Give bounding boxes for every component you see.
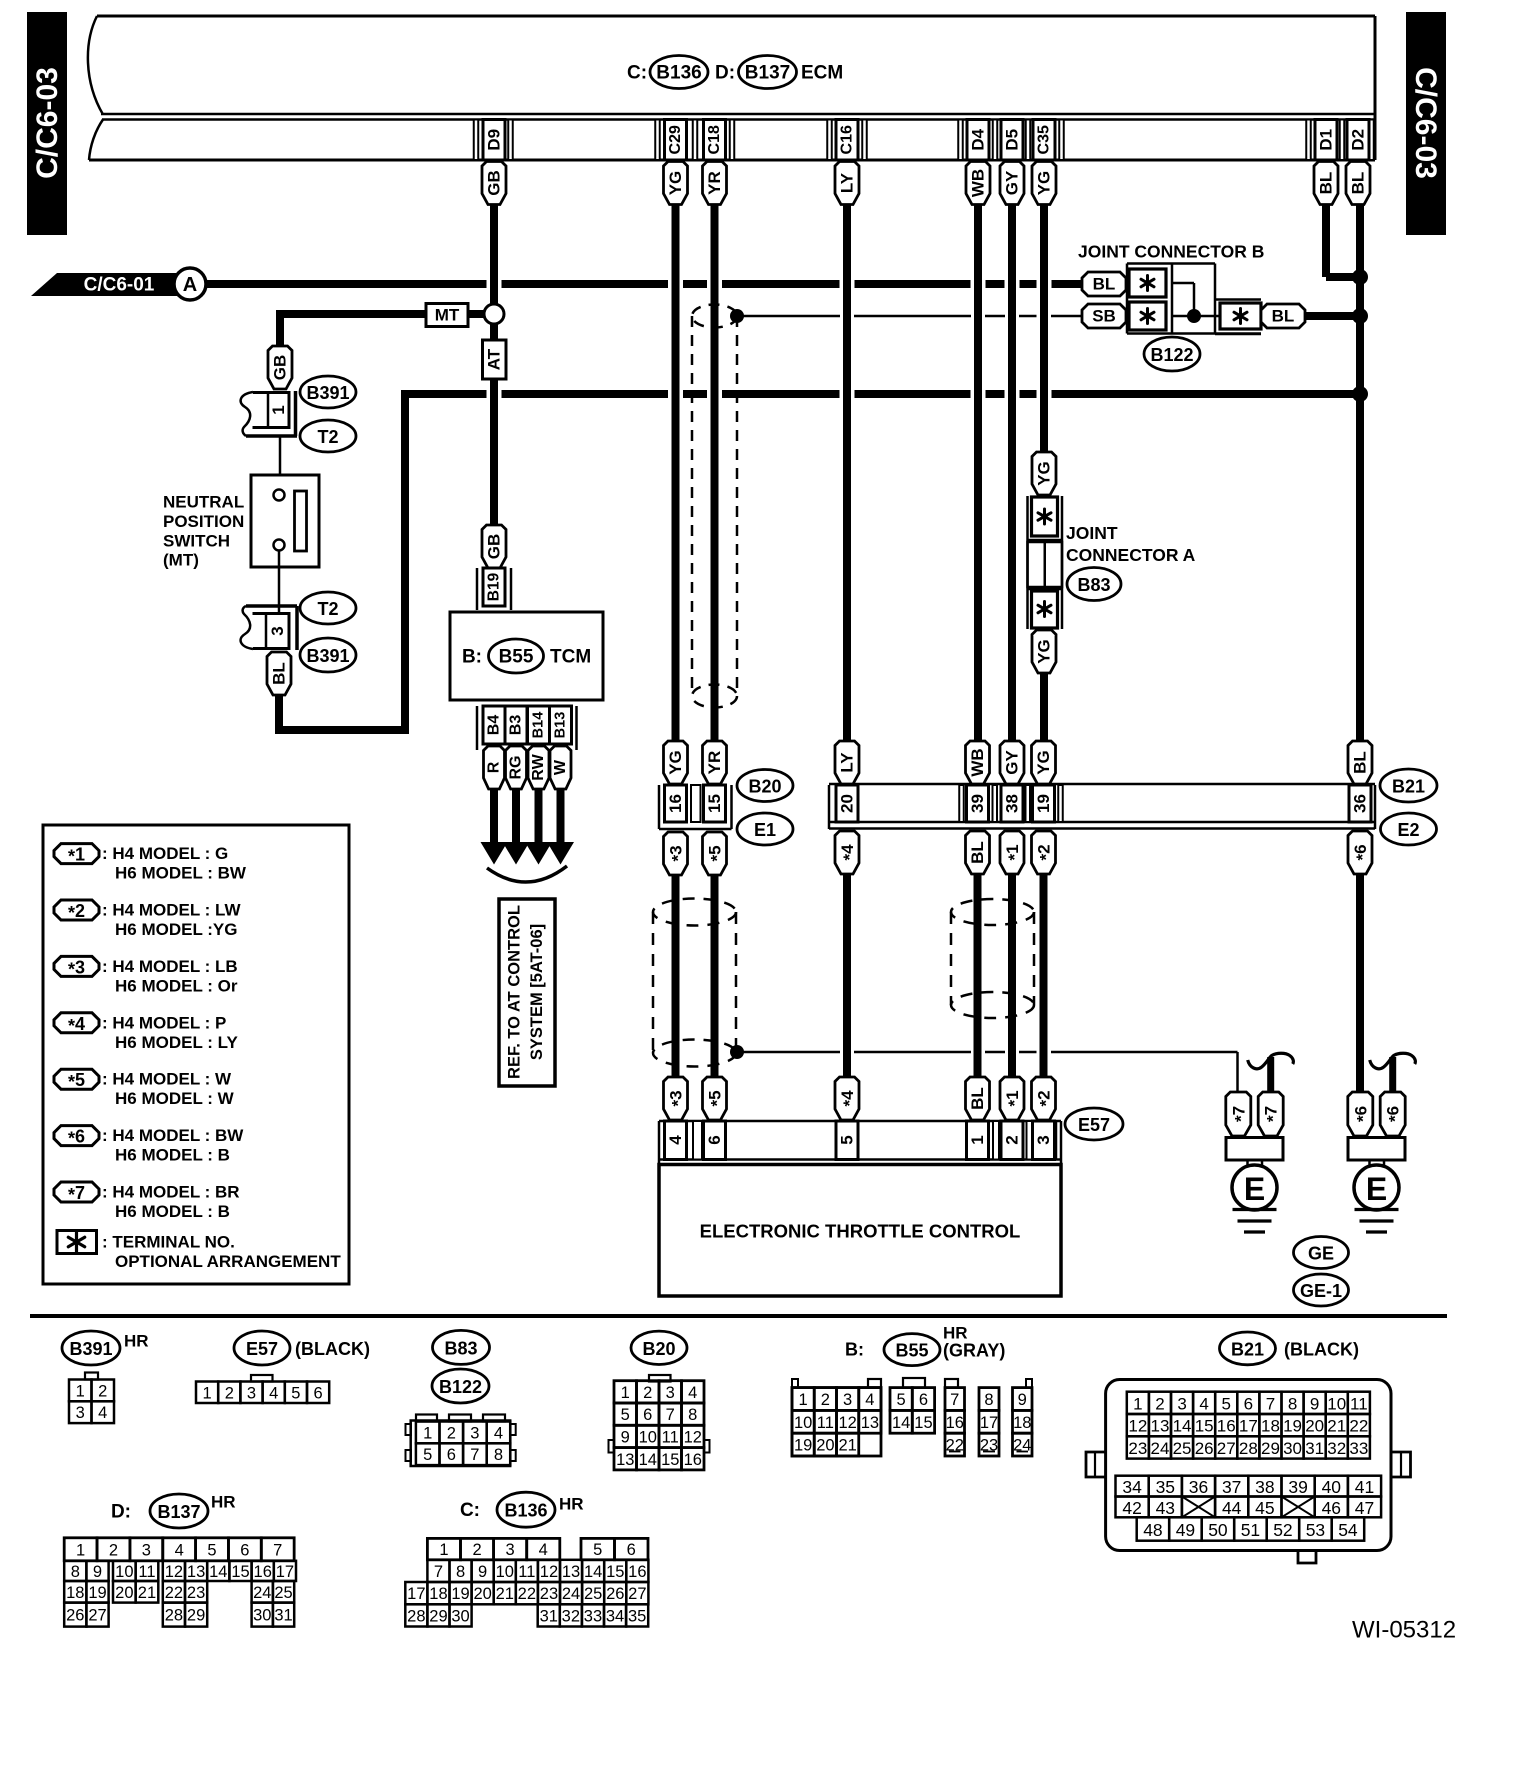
wire tag WB above E2 bbox=[966, 741, 990, 784]
svg-text:B137: B137 bbox=[157, 1502, 200, 1522]
svg-text:YG: YG bbox=[1035, 461, 1054, 486]
wire BL output to D2 node bbox=[1305, 312, 1356, 320]
svg-text:: H4 MODEL : W: : H4 MODEL : W bbox=[102, 1070, 232, 1089]
svg-text:D1: D1 bbox=[1317, 129, 1336, 151]
svg-text:39: 39 bbox=[968, 794, 987, 813]
svg-text:C:: C: bbox=[627, 63, 647, 84]
shield drain wire SB to joint connector B bbox=[737, 315, 1082, 318]
svg-text:7: 7 bbox=[273, 1541, 282, 1559]
svg-text:E57: E57 bbox=[246, 1339, 278, 1359]
svg-text:JOINT CONNECTOR B: JOINT CONNECTOR B bbox=[1078, 242, 1264, 262]
svg-text:21: 21 bbox=[838, 1437, 856, 1455]
svg-text:10: 10 bbox=[496, 1563, 514, 1581]
svg-text:POSITION: POSITION bbox=[163, 512, 244, 531]
svg-text:18: 18 bbox=[1261, 1417, 1280, 1436]
pinout B21 (BLACK) bbox=[1086, 1332, 1411, 1563]
svg-text:*3: *3 bbox=[68, 957, 85, 979]
svg-text:T2: T2 bbox=[317, 599, 338, 619]
wire BL to E57 pin 1 bbox=[974, 873, 982, 1078]
svg-text:12: 12 bbox=[540, 1563, 558, 1581]
wire BL from neutral position switch to D2 node bbox=[275, 389, 1360, 734]
svg-text:LY: LY bbox=[838, 172, 857, 193]
svg-text:29: 29 bbox=[429, 1607, 447, 1625]
connector E1/B20 (pins 16,15) bbox=[659, 785, 732, 829]
svg-text:B21: B21 bbox=[1392, 777, 1425, 797]
wire tag YG joint connector A top bbox=[1032, 452, 1056, 495]
svg-text:26: 26 bbox=[606, 1585, 624, 1603]
svg-text:53: 53 bbox=[1306, 1520, 1325, 1540]
svg-text:B4: B4 bbox=[486, 715, 503, 736]
wire tag BL at E57 bbox=[966, 1077, 990, 1120]
svg-text:14: 14 bbox=[209, 1563, 227, 1581]
svg-text:21: 21 bbox=[138, 1584, 156, 1602]
svg-text:34: 34 bbox=[606, 1607, 624, 1625]
svg-text:7: 7 bbox=[666, 1406, 675, 1424]
svg-text:A: A bbox=[183, 274, 197, 296]
svg-text:18: 18 bbox=[1013, 1414, 1031, 1432]
svg-text:33: 33 bbox=[584, 1607, 602, 1625]
page tab C/C6-03 right bbox=[1406, 12, 1446, 235]
connector MT label box bbox=[426, 304, 468, 327]
svg-text:BL: BL bbox=[968, 1087, 987, 1110]
svg-text:27: 27 bbox=[1217, 1439, 1236, 1458]
connector label E57 bbox=[1065, 1108, 1123, 1140]
svg-text:3: 3 bbox=[268, 626, 287, 635]
svg-text:4: 4 bbox=[1199, 1394, 1208, 1413]
wire tag *1 below E2 bbox=[1000, 831, 1024, 874]
svg-text:32: 32 bbox=[1327, 1439, 1346, 1458]
svg-text:*5: *5 bbox=[705, 845, 726, 861]
wire BL from A to joint connector B bbox=[206, 279, 1082, 289]
wire tag *2 at E57 bbox=[1032, 1077, 1056, 1120]
joint connector A body bbox=[1028, 496, 1063, 629]
svg-text:16: 16 bbox=[684, 1451, 702, 1469]
svg-text:29: 29 bbox=[187, 1607, 205, 1625]
svg-text:5: 5 bbox=[621, 1406, 630, 1424]
wire switch to connector 1 bbox=[279, 436, 282, 475]
svg-text:GY: GY bbox=[1003, 170, 1022, 195]
svg-text:MT: MT bbox=[435, 306, 460, 325]
svg-text:20: 20 bbox=[816, 1437, 834, 1455]
svg-text:18: 18 bbox=[66, 1584, 84, 1602]
svg-text:26: 26 bbox=[66, 1607, 84, 1625]
svg-text:: H4 MODEL : LW: : H4 MODEL : LW bbox=[102, 901, 241, 920]
svg-text:2: 2 bbox=[1003, 1135, 1022, 1144]
svg-text:1: 1 bbox=[76, 1541, 85, 1559]
connector E2/B21 (pins 20,39,38,19,36) bbox=[829, 784, 1375, 829]
svg-text:6: 6 bbox=[240, 1541, 249, 1559]
svg-text:4: 4 bbox=[539, 1541, 548, 1559]
connector label B391 bbox=[300, 376, 356, 408]
legend entry *6 bbox=[54, 1126, 244, 1165]
svg-text:GB: GB bbox=[485, 534, 504, 560]
wire tag GB at TCM B19 bbox=[482, 525, 506, 568]
svg-text:20: 20 bbox=[838, 794, 857, 813]
connector label B21 bbox=[1380, 769, 1437, 802]
svg-text:42: 42 bbox=[1122, 1498, 1141, 1518]
svg-text:30: 30 bbox=[253, 1607, 271, 1625]
svg-text:1: 1 bbox=[269, 405, 288, 414]
ground E (*7) bbox=[1226, 1053, 1294, 1232]
svg-text:31: 31 bbox=[540, 1607, 558, 1625]
pinout B391 (HR) bbox=[62, 1331, 149, 1423]
svg-text:2: 2 bbox=[472, 1541, 481, 1559]
ECM label C: B136 D: B137 ECM bbox=[627, 56, 843, 89]
wire tag YG above E2 bbox=[1032, 741, 1056, 784]
TCM pin B19 bbox=[477, 568, 511, 610]
svg-text:31: 31 bbox=[274, 1607, 292, 1625]
svg-text:1: 1 bbox=[439, 1541, 448, 1559]
svg-text:27: 27 bbox=[88, 1607, 106, 1625]
svg-text:H6 MODEL : B: H6 MODEL : B bbox=[115, 1202, 230, 1221]
svg-text:3: 3 bbox=[843, 1391, 852, 1409]
svg-text:9: 9 bbox=[93, 1563, 102, 1581]
svg-text:: TERMINAL NO.: : TERMINAL NO. bbox=[102, 1233, 235, 1252]
svg-text:50: 50 bbox=[1208, 1520, 1228, 1540]
svg-text:C16: C16 bbox=[839, 125, 856, 154]
wire tag YG at pin C35 bbox=[1032, 162, 1056, 205]
svg-text:24: 24 bbox=[1150, 1439, 1169, 1458]
svg-text:*2: *2 bbox=[1034, 844, 1055, 860]
svg-text:6: 6 bbox=[447, 1446, 456, 1464]
svg-text:20: 20 bbox=[1305, 1417, 1324, 1436]
svg-text:43: 43 bbox=[1156, 1498, 1175, 1518]
diagram number WI-05312 bbox=[1352, 1617, 1456, 1644]
svg-text:7: 7 bbox=[470, 1446, 479, 1464]
svg-text:18: 18 bbox=[429, 1585, 447, 1603]
svg-text:19: 19 bbox=[88, 1584, 106, 1602]
wire tag BL below connector 3 bbox=[267, 652, 291, 695]
svg-text:GE-1: GE-1 bbox=[1300, 1281, 1342, 1301]
pinout C: B136 (HR) bbox=[405, 1492, 648, 1626]
label NEUTRAL POSITION SWITCH (MT) bbox=[163, 493, 244, 570]
svg-text:4: 4 bbox=[666, 1135, 685, 1145]
svg-text:HR: HR bbox=[124, 1332, 149, 1351]
svg-text:*5: *5 bbox=[705, 1090, 726, 1106]
svg-text:B122: B122 bbox=[439, 1377, 482, 1397]
wires to AT control system with arrows bbox=[481, 788, 575, 865]
svg-text:B3: B3 bbox=[508, 715, 525, 736]
svg-text:2: 2 bbox=[225, 1384, 234, 1402]
wire *3 to E57 pin 4 bbox=[672, 874, 680, 1078]
svg-text:17: 17 bbox=[276, 1563, 294, 1581]
wire tag BL above E2 bbox=[1348, 741, 1372, 784]
svg-text:4: 4 bbox=[688, 1384, 697, 1402]
svg-text:HR: HR bbox=[559, 1495, 584, 1514]
svg-text:14: 14 bbox=[584, 1563, 602, 1581]
junction BL neutral switch wire bbox=[1352, 386, 1368, 402]
wire *6 to ground bbox=[1356, 873, 1364, 1093]
svg-text:24: 24 bbox=[253, 1584, 271, 1602]
wire tag *5 below E1 bbox=[703, 832, 727, 875]
svg-text:E2: E2 bbox=[1397, 820, 1419, 840]
svg-text:D5: D5 bbox=[1003, 129, 1022, 151]
connector label B83 bbox=[1067, 568, 1121, 601]
svg-text:10: 10 bbox=[1327, 1394, 1346, 1413]
svg-text:30: 30 bbox=[1283, 1439, 1302, 1458]
svg-text:4: 4 bbox=[494, 1424, 503, 1442]
connector label T2 (lower) bbox=[300, 592, 356, 624]
wire GB (D9) bbox=[490, 204, 498, 526]
svg-text:15: 15 bbox=[705, 794, 724, 813]
ground label GE-1 bbox=[1294, 1274, 1349, 1306]
svg-text:10: 10 bbox=[794, 1414, 812, 1432]
wire tag SB joint connector B input bbox=[1082, 304, 1126, 328]
ECM pin C16 bbox=[836, 120, 858, 161]
TCM unit box B55 bbox=[450, 612, 603, 700]
svg-text:YG: YG bbox=[1035, 171, 1054, 196]
svg-text:B83: B83 bbox=[444, 1338, 477, 1358]
wire tag BL below E2 bbox=[966, 831, 990, 874]
svg-text:11: 11 bbox=[518, 1563, 535, 1581]
ground label GE bbox=[1294, 1237, 1349, 1269]
svg-text:52: 52 bbox=[1273, 1520, 1292, 1540]
ECM pin D9 bbox=[483, 120, 505, 161]
svg-text:40: 40 bbox=[1322, 1477, 1342, 1497]
legend box bbox=[43, 825, 349, 1284]
svg-text:C35: C35 bbox=[1036, 125, 1053, 154]
svg-text:1: 1 bbox=[423, 1424, 432, 1442]
svg-text:B137: B137 bbox=[745, 63, 790, 84]
svg-text:B13: B13 bbox=[553, 712, 569, 739]
svg-text:ELECTRONIC THROTTLE CONTROL: ELECTRONIC THROTTLE CONTROL bbox=[700, 1221, 1021, 1242]
wire tag LY at pin C16 bbox=[835, 162, 859, 205]
svg-text:23: 23 bbox=[187, 1584, 205, 1602]
wire tag BL at pin D1 bbox=[1314, 162, 1338, 205]
svg-text:*6: *6 bbox=[1351, 844, 1372, 860]
svg-text:19: 19 bbox=[1034, 794, 1053, 813]
junction circle (MT/AT option) bbox=[484, 304, 504, 324]
svg-text:21: 21 bbox=[1327, 1417, 1346, 1436]
wire tag *6 below E2 bbox=[1348, 831, 1372, 874]
connector label T2 bbox=[300, 420, 356, 452]
wire YG (C35) upper bbox=[1040, 204, 1048, 453]
svg-text:48: 48 bbox=[1143, 1520, 1162, 1540]
svg-text:CONNECTOR A: CONNECTOR A bbox=[1066, 545, 1196, 565]
wire YG (C35) lower bbox=[1040, 672, 1048, 742]
legend entry *1 bbox=[54, 844, 247, 883]
svg-text:H6 MODEL : LY: H6 MODEL : LY bbox=[115, 1033, 238, 1052]
svg-text:R: R bbox=[486, 761, 503, 773]
svg-text:BL: BL bbox=[1317, 172, 1336, 195]
section divider bbox=[30, 1314, 1447, 1318]
svg-text:9: 9 bbox=[621, 1428, 630, 1446]
svg-text:14: 14 bbox=[892, 1414, 910, 1432]
wire BL (D1) bbox=[1326, 204, 1356, 277]
ECM pin D4 bbox=[967, 120, 989, 161]
svg-text:29: 29 bbox=[1261, 1439, 1280, 1458]
svg-text:6: 6 bbox=[314, 1384, 323, 1402]
svg-text:5: 5 bbox=[207, 1541, 216, 1559]
wire tag GY at pin D5 bbox=[1000, 162, 1024, 205]
svg-text:WI-05312: WI-05312 bbox=[1352, 1617, 1456, 1644]
svg-text:35: 35 bbox=[628, 1607, 646, 1625]
svg-text:9: 9 bbox=[478, 1563, 487, 1581]
arc under arrows bbox=[487, 866, 567, 882]
wire *2 to E57 pin 3 bbox=[1040, 873, 1048, 1078]
svg-text:3: 3 bbox=[76, 1404, 85, 1422]
svg-text:RG: RG bbox=[508, 756, 525, 780]
svg-text:T2: T2 bbox=[317, 427, 338, 447]
svg-text:: H4 MODEL : LB: : H4 MODEL : LB bbox=[102, 957, 238, 976]
pinout B20 bbox=[609, 1331, 710, 1470]
svg-text:3: 3 bbox=[506, 1541, 515, 1559]
svg-text:16: 16 bbox=[946, 1414, 964, 1432]
svg-text:6: 6 bbox=[627, 1541, 636, 1559]
svg-text:27: 27 bbox=[628, 1585, 646, 1603]
svg-text:6: 6 bbox=[705, 1135, 724, 1144]
svg-text:14: 14 bbox=[1173, 1417, 1192, 1436]
shield around WB/GY wires bbox=[951, 899, 1034, 1018]
svg-text:*6: *6 bbox=[1351, 1106, 1372, 1122]
svg-text:7: 7 bbox=[950, 1391, 959, 1409]
ECM pin D1 bbox=[1315, 120, 1337, 161]
svg-text:GE: GE bbox=[1308, 1244, 1334, 1264]
wire tag BL joint connector B input bbox=[1082, 272, 1126, 296]
svg-text:16: 16 bbox=[254, 1563, 272, 1581]
connector label B391 (lower) bbox=[300, 638, 356, 672]
svg-text:(BLACK): (BLACK) bbox=[295, 1339, 370, 1359]
wire YG (C29) bbox=[672, 204, 680, 742]
junction BL joint connector B output bbox=[1352, 308, 1368, 324]
svg-text:JOINT: JOINT bbox=[1066, 523, 1118, 543]
svg-text:22: 22 bbox=[518, 1585, 536, 1603]
svg-text:*4: *4 bbox=[68, 1014, 85, 1036]
wire tag *3 at E57 bbox=[664, 1077, 688, 1120]
svg-text:38: 38 bbox=[1255, 1477, 1274, 1497]
svg-text:35: 35 bbox=[1156, 1477, 1175, 1497]
wire tag *1 at E57 bbox=[1000, 1077, 1024, 1120]
svg-text:13: 13 bbox=[861, 1414, 879, 1432]
svg-text:C:: C: bbox=[460, 1500, 480, 1521]
svg-text:19: 19 bbox=[451, 1585, 469, 1603]
wire tag YR at E1 pin 15 bbox=[703, 741, 727, 784]
legend entry *3 bbox=[54, 956, 238, 995]
ECM pin C29 bbox=[665, 120, 687, 161]
svg-text:22: 22 bbox=[1349, 1417, 1368, 1436]
svg-text:GB: GB bbox=[485, 170, 504, 196]
svg-text:YR: YR bbox=[705, 171, 724, 195]
svg-text:5: 5 bbox=[593, 1541, 602, 1559]
svg-text:H6 MODEL :YG: H6 MODEL :YG bbox=[115, 920, 237, 939]
svg-text:D:: D: bbox=[715, 63, 735, 84]
svg-text:*4: *4 bbox=[838, 844, 859, 861]
svg-text:33: 33 bbox=[1349, 1439, 1368, 1458]
shield drain wire to ground *7 bbox=[737, 1052, 1238, 1092]
svg-text:BL: BL bbox=[1349, 172, 1368, 195]
svg-text:15: 15 bbox=[1195, 1417, 1214, 1436]
svg-text:15: 15 bbox=[661, 1451, 679, 1469]
wire tags R RG RW W bbox=[484, 746, 572, 789]
wire YR (C18) bbox=[711, 204, 719, 742]
wire *1 to E57 pin 2 bbox=[1008, 873, 1016, 1078]
svg-text:5: 5 bbox=[423, 1446, 432, 1464]
svg-text:*1: *1 bbox=[1003, 844, 1024, 860]
svg-text:26: 26 bbox=[1195, 1439, 1214, 1458]
wire tag YG at E1 pin 16 bbox=[664, 741, 688, 784]
svg-text:51: 51 bbox=[1241, 1520, 1260, 1540]
wire tag BL at pin D2 bbox=[1346, 162, 1370, 205]
svg-text:(MT): (MT) bbox=[163, 551, 199, 570]
svg-text:D4: D4 bbox=[969, 128, 988, 150]
svg-text:GY: GY bbox=[1003, 750, 1022, 775]
svg-text:W: W bbox=[552, 759, 569, 775]
label JOINT CONNECTOR A bbox=[1066, 523, 1196, 565]
svg-text:9: 9 bbox=[1310, 1394, 1319, 1413]
svg-text:12: 12 bbox=[684, 1428, 702, 1446]
svg-text:17: 17 bbox=[407, 1585, 425, 1603]
ECM unit box bbox=[88, 16, 1375, 160]
svg-text:B122: B122 bbox=[1150, 345, 1193, 365]
svg-text:16: 16 bbox=[666, 794, 685, 813]
svg-text:YG: YG bbox=[1034, 750, 1053, 775]
neutral position switch (MT) bbox=[251, 475, 319, 567]
svg-text:: H4 MODEL : G: : H4 MODEL : G bbox=[102, 844, 228, 863]
svg-text:54: 54 bbox=[1338, 1520, 1358, 1540]
wire MT branch bbox=[276, 310, 484, 346]
wire tag *3 below E1 bbox=[664, 832, 688, 875]
connector label E1 bbox=[737, 813, 793, 845]
svg-text:1: 1 bbox=[799, 1391, 808, 1409]
svg-text:5: 5 bbox=[838, 1135, 857, 1144]
svg-text:H6 MODEL : B: H6 MODEL : B bbox=[115, 1146, 230, 1165]
svg-text:: H4 MODEL : P: : H4 MODEL : P bbox=[102, 1013, 226, 1032]
svg-text:25: 25 bbox=[1173, 1439, 1192, 1458]
legend entry *7 bbox=[54, 1182, 240, 1221]
svg-text:3: 3 bbox=[1034, 1135, 1053, 1144]
svg-text:*5: *5 bbox=[68, 1070, 85, 1092]
svg-text:*3: *3 bbox=[666, 1090, 687, 1106]
svg-text:*1: *1 bbox=[68, 845, 85, 867]
svg-text:*7: *7 bbox=[1261, 1106, 1282, 1122]
svg-text:WB: WB bbox=[969, 169, 988, 197]
svg-text:8: 8 bbox=[494, 1446, 503, 1464]
svg-text:YG: YG bbox=[666, 171, 685, 196]
svg-text:HR: HR bbox=[211, 1493, 236, 1512]
svg-text:TCM: TCM bbox=[550, 647, 591, 668]
pinout E57 (BLACK) bbox=[196, 1331, 370, 1403]
electronic throttle control box bbox=[659, 1165, 1061, 1297]
svg-text:1: 1 bbox=[203, 1384, 212, 1402]
wire *4 to E57 pin 5 bbox=[843, 873, 851, 1078]
svg-text:WB: WB bbox=[968, 748, 987, 776]
svg-text:39: 39 bbox=[1288, 1477, 1307, 1497]
connector label B122 bbox=[1144, 337, 1200, 371]
svg-text:1: 1 bbox=[1133, 1394, 1142, 1413]
svg-text:36: 36 bbox=[1351, 794, 1370, 813]
svg-text:YG: YG bbox=[1035, 639, 1054, 664]
svg-text:SYSTEM [5AT-06]: SYSTEM [5AT-06] bbox=[528, 924, 546, 1060]
wire tag *5 at E57 bbox=[703, 1077, 727, 1120]
svg-text:5: 5 bbox=[897, 1391, 906, 1409]
svg-text:E: E bbox=[1244, 1171, 1265, 1207]
svg-text:C29: C29 bbox=[667, 125, 684, 154]
svg-text:BL: BL bbox=[1272, 307, 1295, 326]
svg-text:C/C6-01: C/C6-01 bbox=[84, 275, 155, 296]
svg-text:3: 3 bbox=[666, 1384, 675, 1402]
svg-text:*4: *4 bbox=[838, 1090, 859, 1107]
legend entry *5 bbox=[54, 1069, 235, 1108]
svg-text:20: 20 bbox=[115, 1584, 133, 1602]
svg-text:GB: GB bbox=[271, 355, 290, 381]
svg-text:47: 47 bbox=[1355, 1498, 1374, 1518]
junction shield drain *5 bbox=[730, 1045, 744, 1059]
svg-text:32: 32 bbox=[562, 1607, 580, 1625]
connector T2/B391 terminal 3 bbox=[241, 606, 297, 650]
svg-text:3: 3 bbox=[142, 1541, 151, 1559]
svg-text:B391: B391 bbox=[69, 1339, 112, 1359]
svg-text:17: 17 bbox=[1239, 1417, 1258, 1436]
